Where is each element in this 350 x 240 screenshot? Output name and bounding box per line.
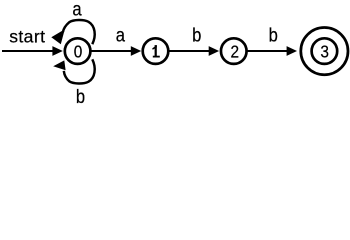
svg-text:a: a	[116, 24, 126, 46]
arrowhead edge 1 to 2	[209, 46, 219, 56]
svg-text:b: b	[192, 24, 201, 46]
svg-text:b: b	[76, 86, 85, 107]
state 0	[65, 38, 91, 64]
label 2	[231, 43, 240, 62]
self-loop b (bottom)	[64, 59, 95, 83]
arrowhead edge 2 to 3	[287, 46, 297, 56]
label a (top loop)	[72, 0, 82, 20]
wire edge 0 to 1	[90, 50, 131, 52]
state 1	[143, 38, 169, 64]
label b (edge 2-3)	[269, 24, 278, 46]
svg-text:start: start	[9, 26, 45, 46]
wire edge 2 to 3	[247, 50, 288, 52]
svg-text:2: 2	[231, 43, 240, 62]
wire edge 1 to 2	[168, 50, 209, 52]
arrowhead self-loop b	[53, 60, 65, 70]
svg-text:a: a	[72, 0, 82, 20]
state 3 accepting outer circle	[301, 27, 348, 74]
svg-text:3: 3	[320, 43, 329, 62]
state 2	[221, 38, 247, 64]
arrowhead start arrow	[52, 46, 62, 56]
label 0	[74, 43, 83, 62]
label b (bottom loop)	[76, 86, 85, 108]
arrowhead self-loop a	[51, 29, 65, 44]
label 3	[320, 43, 329, 62]
label 1 (DejaVu style with foot)	[152, 45, 160, 57]
svg-text:0: 0	[74, 43, 83, 62]
wire start arrow	[2, 50, 53, 52]
label b (edge 1-2)	[192, 24, 201, 46]
arrowhead edge 0 to 1	[131, 46, 141, 56]
state 3 inner circle	[312, 38, 338, 64]
self-loop a (top)	[63, 20, 95, 44]
label a (edge 0-1)	[116, 24, 126, 46]
svg-text:b: b	[269, 24, 278, 46]
